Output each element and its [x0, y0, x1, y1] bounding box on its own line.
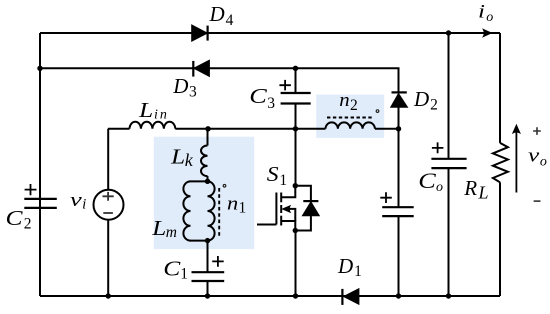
- inductor Lk: [201, 146, 208, 177]
- svg-text:vo: vo: [528, 146, 547, 170]
- node: bottom rail / vi: [106, 293, 111, 298]
- minus vi: [103, 212, 113, 214]
- wire C2 top: [39, 68, 41, 199]
- wire Lk bottom to transformer: [207, 176, 209, 181]
- mosfet S1: [257, 186, 295, 231]
- wire S1 source to bottom rail: [295, 231, 297, 297]
- channel segment bottom: [280, 216, 282, 226]
- inductor Lm: [183, 181, 190, 240]
- svg-text:C1: C1: [163, 256, 188, 282]
- wire left rail: [39, 33, 41, 296]
- wire bottom rail: [40, 295, 500, 297]
- node: Lin / Lk: [205, 126, 210, 131]
- node: bottom rail / S1: [293, 293, 298, 298]
- svg-text:io: io: [478, 2, 493, 25]
- diode D3: [193, 60, 209, 76]
- winding n2: [326, 122, 375, 128]
- node: bottom rail / C4: [396, 293, 401, 298]
- capacitor Co: [431, 159, 466, 168]
- winding n1: [208, 181, 215, 240]
- wire transformer to C1: [207, 241, 209, 273]
- inductor Lin: [130, 122, 176, 129]
- vo arrow head: [513, 125, 520, 133]
- svg-text:D4: D4: [209, 2, 234, 29]
- gate lead: [257, 224, 276, 226]
- svg-text:RL: RL: [463, 176, 488, 203]
- svg-text:C2: C2: [6, 206, 32, 233]
- svg-text:Co: Co: [418, 168, 443, 195]
- svg-text:n2: n2: [339, 90, 357, 114]
- wire n2 right end to junction: [375, 128, 399, 130]
- svg-text:S1: S1: [267, 162, 287, 189]
- capacitor C2: [24, 199, 57, 208]
- plus vi: [103, 192, 114, 201]
- node: S1 source / body diode: [293, 228, 298, 233]
- substrate arrow: [282, 206, 290, 213]
- plus C1: [212, 256, 224, 267]
- transformer core n2 dashed: [327, 117, 373, 119]
- substrate link: [284, 209, 295, 221]
- plus C2: [25, 184, 37, 195]
- diode D4: [192, 25, 208, 41]
- plus C3: [279, 80, 291, 91]
- vo arrow line: [515, 131, 517, 193]
- wire Lin input node: [108, 128, 130, 130]
- io arrow: [483, 29, 492, 37]
- wire top rail: [40, 32, 500, 34]
- svg-text:D3: D3: [172, 74, 197, 101]
- node: C3 bottom / S1 drain line: [293, 126, 298, 131]
- wire C2 bottom: [39, 208, 41, 296]
- wire transformer bottom connector: [190, 240, 208, 242]
- wire vi bottom: [107, 220, 109, 296]
- wire right rail lower: [499, 182, 501, 296]
- source lead: [282, 221, 295, 231]
- drain lead: [282, 186, 295, 198]
- capacitor C1: [192, 272, 225, 281]
- voltage source vi: [94, 190, 124, 220]
- plus C4: [380, 192, 392, 203]
- wire D3 rail: [40, 68, 399, 92]
- svg-text:C3: C3: [249, 84, 275, 112]
- plus Co: [432, 142, 444, 153]
- node: n2 right / D2 anode / C4: [396, 126, 401, 131]
- wire C3 bottom to S1: [295, 104, 297, 186]
- svg-text:D2: D2: [413, 87, 438, 114]
- wire D2 anode to n2 junction: [398, 107, 400, 129]
- gate bar: [275, 193, 277, 225]
- highlight box around n2: [316, 95, 384, 138]
- node: Lk bottom / Lm / n1 top: [205, 179, 210, 184]
- svg-text:Lin: Lin: [138, 98, 169, 123]
- wire C1 bottom: [207, 281, 209, 296]
- channel segment middle: [280, 205, 282, 213]
- node: D3 rail / C3 top: [293, 66, 298, 71]
- diode D1: [342, 289, 359, 305]
- channel segment top: [280, 193, 282, 203]
- svg-text:D1: D1: [337, 254, 362, 280]
- node: top rail / Co: [446, 30, 451, 35]
- wire Co top: [448, 33, 450, 159]
- wire C4 bottom: [398, 216, 400, 296]
- node: bottom rail / C1: [205, 293, 210, 298]
- wire right rail upper: [499, 33, 501, 143]
- plus vo: [533, 127, 541, 135]
- wire vi top: [107, 129, 109, 190]
- wire C4 top: [398, 129, 400, 207]
- capacitor C4: [382, 207, 414, 216]
- svg-text:vi: vi: [70, 190, 86, 213]
- polarity dot n1: [223, 185, 226, 188]
- resistor RL: [493, 143, 508, 182]
- junction node dots: [37, 30, 451, 298]
- transformer core n1 dashed: [218, 188, 220, 236]
- wire transformer top connector: [190, 180, 208, 182]
- wire Lk top: [207, 129, 209, 146]
- node: Lm / n1 bottom / C1 top: [205, 238, 210, 243]
- diode D2: [391, 92, 408, 107]
- highlight box around Lk/Lm/n1: [154, 137, 254, 249]
- polarity dot n2: [376, 110, 379, 113]
- capacitor C3: [281, 93, 311, 104]
- node: left rail / D3 rail: [37, 66, 42, 71]
- body diode of S1: [295, 186, 319, 231]
- node: S1 drain / body diode: [293, 183, 298, 188]
- node: bottom rail / Co: [446, 293, 451, 298]
- wire C3 top node: [295, 68, 297, 93]
- minus vo: [534, 200, 541, 202]
- wire Co bottom: [448, 168, 450, 296]
- wire Lin to C3 node: [175, 128, 325, 130]
